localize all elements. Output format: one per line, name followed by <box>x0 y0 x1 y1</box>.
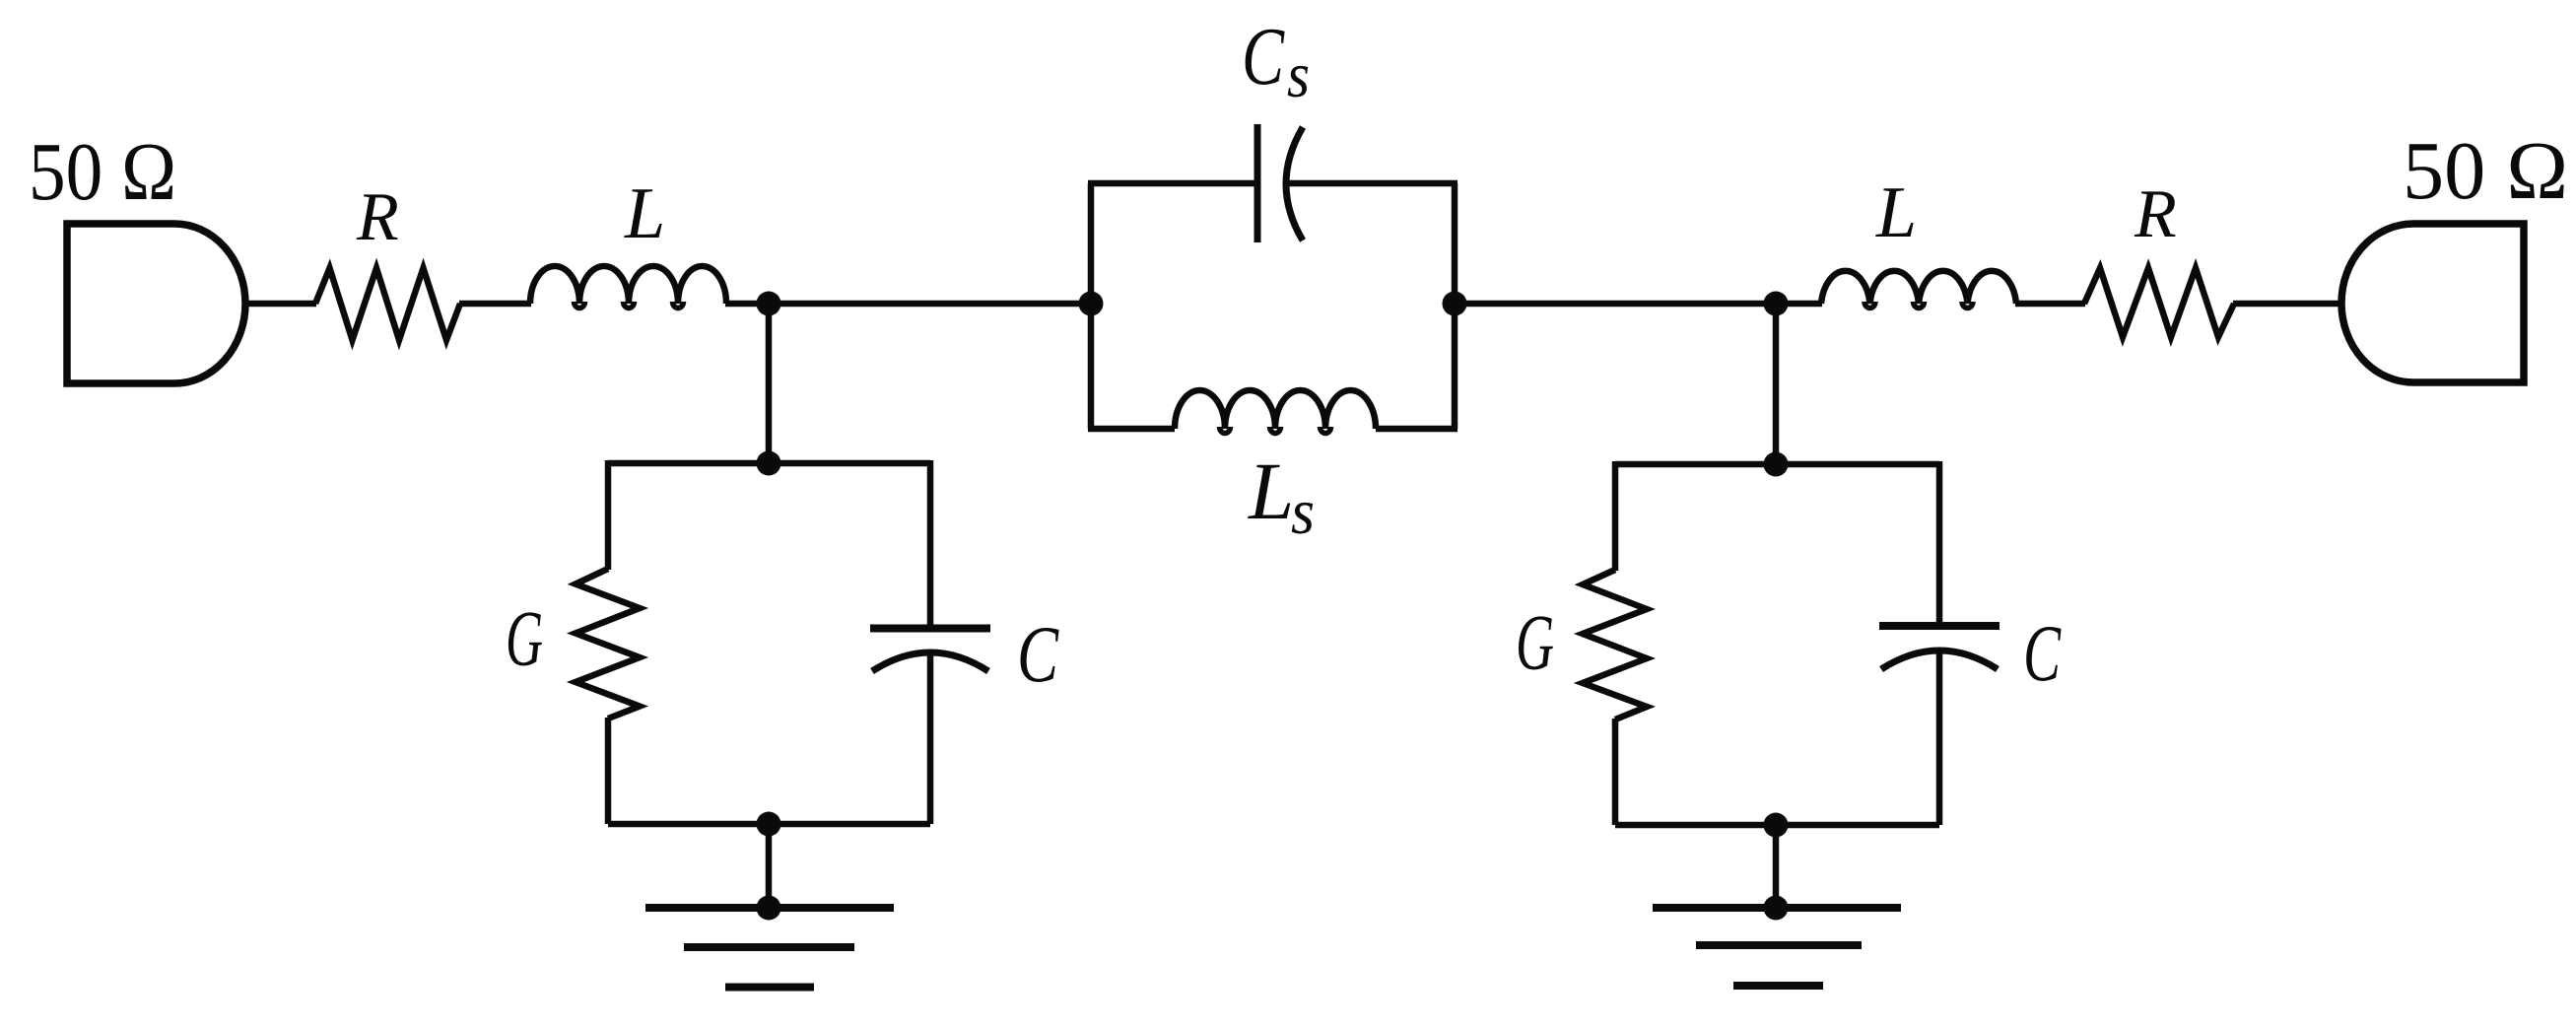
svg-text:G: G <box>1516 600 1554 687</box>
wire R to port P2 <box>2233 301 2344 308</box>
center block top edge (left of Cs) <box>1088 180 1257 187</box>
junction dot at top of shunt block 2 <box>1764 452 1789 477</box>
shunt block 2 bottom edge <box>1615 822 1939 829</box>
shunt block 1 bottom edge <box>608 821 930 828</box>
wire port1 to R <box>242 301 316 308</box>
node B junction dot <box>1764 292 1789 316</box>
wire L to R (right) <box>2015 301 2085 308</box>
ground junction dot (left) <box>757 896 781 921</box>
center block left edge <box>1088 183 1095 429</box>
wire center block to node B <box>1455 301 1776 308</box>
shunt block 1 right edge (upper) <box>927 460 934 625</box>
wire node B to L (right) <box>1776 301 1822 308</box>
wire node B down to shunt block 2 <box>1773 304 1780 464</box>
svg-text:L: L <box>1875 172 1917 253</box>
wire node A to center block <box>769 301 1091 308</box>
svg-text:G: G <box>506 596 543 683</box>
inductor L (left) <box>530 266 726 304</box>
svg-text:s: s <box>1287 39 1310 111</box>
wire R to L (left) <box>459 301 531 308</box>
inductor L (right) <box>1821 271 2016 304</box>
resistor R (right) <box>2084 268 2234 337</box>
center block bottom edge (left of Ls) <box>1088 426 1175 433</box>
junction dot at center block right <box>1443 292 1467 316</box>
resistor R (left) <box>315 268 460 340</box>
shunt block 2 right edge (upper) <box>1936 461 1943 622</box>
junction dot at center block left <box>1079 292 1104 316</box>
wire shunt 2 to ground <box>1773 825 1780 908</box>
capacitor C top plate (left shunt) <box>870 625 990 633</box>
shunt block 1 left edge (upper) <box>605 460 612 570</box>
wire node A down to shunt block 1 <box>766 304 773 463</box>
shunt block 2 top edge <box>1615 461 1939 468</box>
ground symbol (left) line 1 <box>645 904 894 912</box>
shunt block 1 left edge (lower) <box>605 718 612 824</box>
port P1 (50 ohm source, left) <box>67 224 245 383</box>
ground symbol (right) line 1 <box>1653 904 1901 912</box>
svg-text:R: R <box>356 179 399 255</box>
shunt block 1 right edge (lower) <box>927 652 934 824</box>
resistor G (left shunt) <box>576 569 640 719</box>
shunt block 2 left edge (lower) <box>1612 719 1619 825</box>
capacitor Cs left plate <box>1254 124 1261 242</box>
center block right edge <box>1452 183 1458 429</box>
inductor Ls <box>1175 390 1376 429</box>
svg-text:50 Ω: 50 Ω <box>2403 125 2568 217</box>
ground symbol (right) line 3 <box>1733 982 1823 990</box>
svg-text:L: L <box>1248 445 1294 536</box>
svg-text:50 Ω: 50 Ω <box>29 126 176 218</box>
junction dot at top of shunt block 1 <box>757 451 781 476</box>
svg-text:L: L <box>624 173 665 254</box>
capacitor C curved bottom plate (right shunt) <box>1881 651 1998 669</box>
wire L to node A <box>725 301 773 308</box>
shunt block 2 right edge (lower) <box>1936 651 1943 825</box>
svg-text:C: C <box>1017 609 1059 699</box>
resistor G (right shunt) <box>1583 570 1647 720</box>
junction dot at bottom of shunt block 1 <box>757 812 781 837</box>
center block top edge (right of Cs) <box>1289 180 1457 187</box>
center block bottom edge (right of Ls) <box>1376 426 1457 433</box>
ground symbol (right) line 2 <box>1696 941 1862 949</box>
shunt block 1 top edge <box>608 460 930 467</box>
port P2 (50 ohm load, right) <box>2341 224 2524 382</box>
svg-text:C: C <box>2023 608 2062 698</box>
capacitor C curved bottom plate (left shunt) <box>872 652 988 671</box>
junction dot at bottom of shunt block 2 <box>1764 813 1789 838</box>
shunt block 2 left edge (upper) <box>1612 461 1619 571</box>
ground symbol (left) line 3 <box>725 984 814 992</box>
capacitor Cs curved right plate <box>1286 127 1303 240</box>
svg-text:R: R <box>2134 176 2177 252</box>
ground symbol (left) line 2 <box>684 943 854 951</box>
capacitor C top plate (right shunt) <box>1879 622 2000 630</box>
svg-text:s: s <box>1291 476 1315 548</box>
wire shunt 1 to ground <box>766 824 773 908</box>
svg-text:C: C <box>1242 11 1285 103</box>
node A junction dot <box>757 292 781 316</box>
ground junction dot (right) <box>1764 896 1789 921</box>
